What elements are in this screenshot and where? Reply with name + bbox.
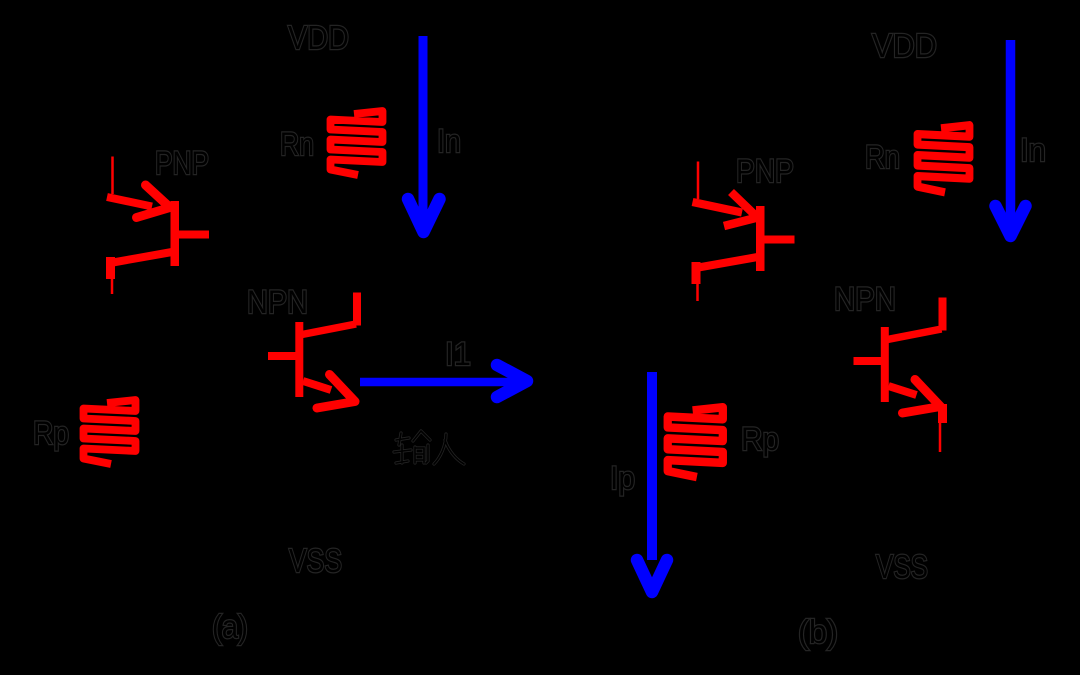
svg-text:Ip: Ip [610, 460, 635, 496]
svg-text:NPN: NPN [247, 284, 308, 320]
svg-text:PNP: PNP [736, 153, 794, 189]
svg-text:(b): (b) [798, 613, 838, 650]
svg-text:VDD: VDD [872, 27, 937, 64]
svg-text:Rp: Rp [33, 415, 69, 451]
svg-text:VDD: VDD [288, 19, 349, 56]
svg-text:PNP: PNP [155, 145, 209, 181]
svg-text:Rn: Rn [280, 126, 314, 162]
svg-text:NPN: NPN [834, 281, 896, 317]
svg-text:I1: I1 [445, 336, 471, 372]
svg-text:VSS: VSS [876, 548, 928, 585]
svg-text:(a): (a) [212, 608, 248, 645]
svg-text:VSS: VSS [289, 542, 342, 579]
svg-text:In: In [1020, 132, 1046, 168]
svg-text:In: In [437, 123, 461, 159]
svg-text:Rp: Rp [741, 421, 779, 457]
svg-text:Rn: Rn [865, 139, 900, 175]
